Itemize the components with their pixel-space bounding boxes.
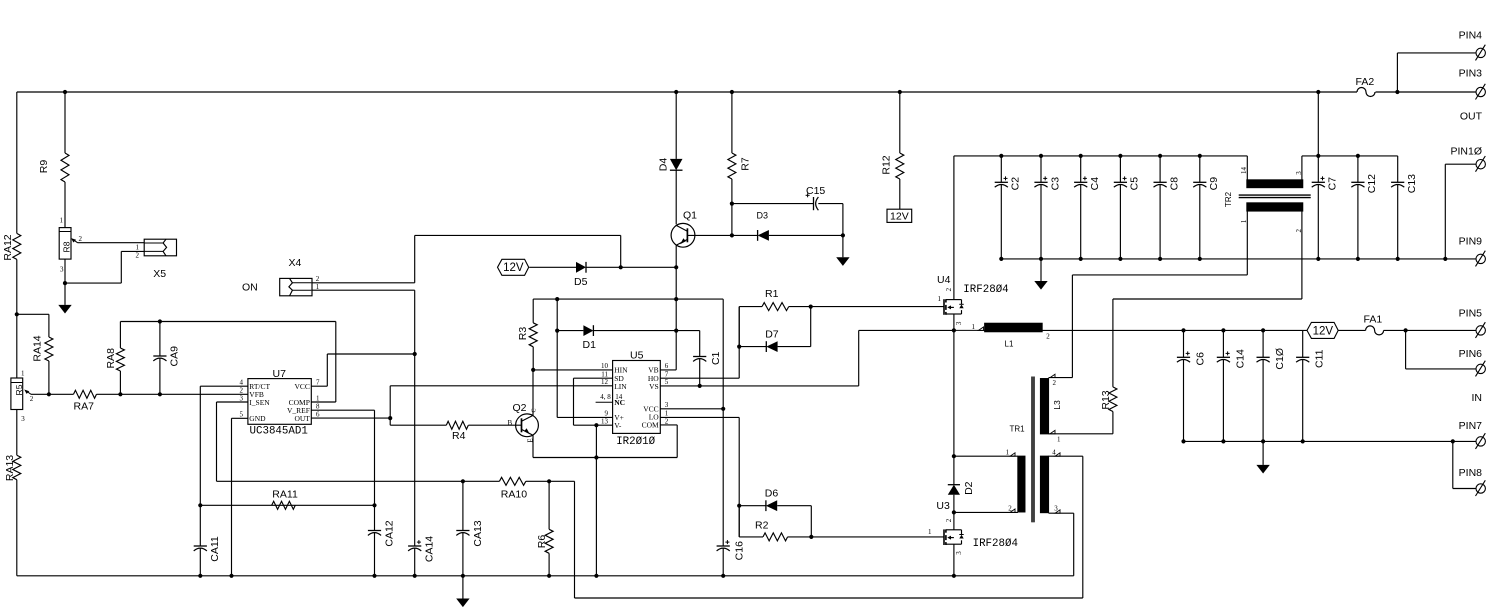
svg-text:PIN4: PIN4 [1459, 29, 1483, 41]
svg-text:14: 14 [1240, 167, 1248, 175]
svg-text:13: 13 [601, 417, 609, 425]
svg-text:U4: U4 [937, 274, 951, 286]
svg-text:C12: C12 [1366, 174, 1378, 193]
svg-text:2: 2 [1046, 333, 1050, 341]
svg-text:L1: L1 [1005, 340, 1014, 349]
svg-text:RA10: RA10 [501, 489, 527, 501]
svg-text:PIN3: PIN3 [1459, 68, 1483, 80]
svg-text:PIN1Ø: PIN1Ø [1450, 146, 1482, 158]
svg-text:C14: C14 [1234, 349, 1246, 368]
svg-text:R1: R1 [765, 288, 779, 300]
svg-text:1: 1 [21, 370, 25, 378]
svg-text:3: 3 [60, 266, 64, 274]
svg-text:FA2: FA2 [1356, 76, 1375, 88]
svg-text:1: 1 [136, 243, 140, 251]
svg-text:3: 3 [1054, 504, 1058, 512]
svg-text:RA12: RA12 [2, 234, 14, 260]
svg-text:C8: C8 [1168, 177, 1180, 191]
svg-text:C5: C5 [1129, 177, 1141, 191]
svg-text:R9: R9 [38, 160, 50, 174]
svg-text:6: 6 [665, 362, 669, 370]
svg-text:L3: L3 [1052, 400, 1062, 410]
svg-text:C4: C4 [1089, 177, 1101, 191]
svg-text:ON: ON [242, 282, 258, 294]
svg-text:4, 8: 4, 8 [600, 393, 611, 401]
svg-text:RA7: RA7 [74, 401, 95, 413]
svg-text:CA11: CA11 [209, 536, 221, 562]
svg-text:C15: C15 [806, 185, 825, 197]
svg-text:X4: X4 [289, 257, 302, 269]
svg-text:R5: R5 [14, 384, 24, 395]
svg-text:X5: X5 [153, 268, 166, 280]
svg-text:10: 10 [601, 362, 609, 370]
svg-text:IRF28Ø4: IRF28Ø4 [973, 538, 1018, 550]
svg-text:2: 2 [945, 518, 953, 522]
svg-text:1: 1 [665, 410, 669, 418]
svg-text:2: 2 [79, 235, 83, 243]
svg-text:D2: D2 [963, 481, 975, 495]
svg-text:CA9: CA9 [169, 346, 181, 367]
svg-text:2: 2 [240, 386, 244, 394]
svg-text:R8: R8 [62, 241, 72, 252]
svg-text:1: 1 [1006, 449, 1010, 457]
svg-text:TR2: TR2 [1224, 191, 1233, 207]
svg-text:D6: D6 [765, 488, 779, 500]
svg-text:RA11: RA11 [272, 489, 298, 501]
svg-text:OUT: OUT [294, 414, 310, 423]
svg-text:V-: V- [614, 421, 622, 430]
svg-text:C7: C7 [1327, 177, 1339, 191]
svg-text:RA13: RA13 [4, 455, 16, 481]
svg-text:1: 1 [1240, 219, 1248, 223]
svg-text:2: 2 [1295, 229, 1303, 233]
svg-text:PIN7: PIN7 [1459, 420, 1483, 432]
svg-text:12V: 12V [890, 211, 909, 223]
svg-text:R4: R4 [452, 430, 466, 442]
svg-text:R13: R13 [1100, 390, 1112, 409]
svg-text:C16: C16 [733, 541, 745, 560]
svg-text:Q2: Q2 [513, 402, 527, 414]
svg-text:VCC: VCC [294, 382, 309, 391]
svg-text:R6: R6 [536, 535, 548, 549]
svg-text:6: 6 [316, 411, 320, 419]
svg-text:8: 8 [316, 402, 320, 410]
svg-text:3: 3 [955, 551, 963, 555]
svg-text:U5: U5 [630, 349, 644, 361]
svg-text:1: 1 [316, 394, 320, 402]
svg-text:C9: C9 [1208, 177, 1220, 191]
svg-text:12V: 12V [1313, 325, 1334, 337]
svg-text:RA8: RA8 [105, 348, 117, 369]
svg-text:TR1: TR1 [1010, 425, 1026, 434]
svg-text:C3: C3 [1049, 177, 1061, 191]
svg-text:3: 3 [21, 415, 25, 423]
svg-text:VS: VS [649, 382, 659, 391]
svg-text:IN: IN [1472, 392, 1483, 404]
svg-text:3: 3 [955, 321, 963, 325]
svg-text:I_SEN: I_SEN [249, 398, 270, 407]
svg-text:E: E [527, 438, 535, 442]
svg-text:FA1: FA1 [1364, 314, 1383, 326]
svg-text:2: 2 [1053, 379, 1057, 387]
svg-text:5: 5 [665, 378, 669, 386]
svg-text:C6: C6 [1195, 352, 1207, 366]
svg-text:CA14: CA14 [424, 536, 436, 562]
svg-text:UC3845AD1: UC3845AD1 [250, 425, 308, 437]
svg-text:3: 3 [665, 401, 669, 409]
svg-text:IRF28Ø4: IRF28Ø4 [963, 284, 1008, 296]
svg-text:2: 2 [665, 417, 669, 425]
svg-text:R12: R12 [881, 155, 893, 174]
svg-text:3: 3 [1295, 171, 1303, 175]
svg-text:C: C [532, 408, 538, 412]
svg-text:C2: C2 [1010, 177, 1022, 191]
svg-text:U3: U3 [936, 500, 950, 512]
svg-text:2: 2 [30, 395, 34, 403]
svg-text:CA13: CA13 [472, 520, 484, 546]
svg-text:Q1: Q1 [683, 209, 697, 221]
svg-text:R2: R2 [755, 520, 769, 532]
svg-text:C1Ø: C1Ø [1274, 348, 1286, 370]
svg-text:COM: COM [642, 421, 659, 430]
svg-text:B: B [508, 419, 513, 427]
svg-text:R3: R3 [517, 327, 529, 341]
svg-text:D4: D4 [657, 158, 669, 172]
svg-text:1: 1 [1057, 436, 1061, 444]
svg-text:1: 1 [972, 323, 976, 331]
svg-text:RA14: RA14 [32, 335, 44, 361]
svg-text:PIN8: PIN8 [1459, 467, 1483, 479]
svg-text:OUT: OUT [1460, 111, 1483, 123]
svg-text:2: 2 [1008, 504, 1012, 512]
svg-text:D5: D5 [574, 276, 588, 288]
svg-text:PIN5: PIN5 [1459, 307, 1483, 319]
svg-text:14: 14 [615, 393, 623, 401]
svg-text:CA12: CA12 [384, 520, 396, 546]
svg-text:2: 2 [945, 287, 953, 291]
svg-text:3: 3 [240, 394, 244, 402]
svg-text:5: 5 [240, 411, 244, 419]
svg-text:D1: D1 [583, 339, 597, 351]
svg-text:GND: GND [249, 414, 266, 423]
svg-text:4: 4 [240, 378, 244, 386]
svg-text:PIN9: PIN9 [1459, 236, 1483, 248]
svg-text:C1: C1 [710, 351, 722, 365]
svg-text:D7: D7 [765, 329, 779, 341]
svg-text:C13: C13 [1406, 174, 1418, 193]
svg-text:PIN6: PIN6 [1459, 348, 1483, 360]
svg-text:2: 2 [136, 251, 140, 259]
svg-text:IR2Ø1Ø: IR2Ø1Ø [616, 436, 655, 448]
svg-text:7: 7 [316, 378, 320, 386]
svg-text:U7: U7 [273, 368, 287, 380]
svg-text:D3: D3 [757, 211, 769, 221]
svg-text:9: 9 [605, 410, 609, 418]
svg-text:12: 12 [601, 378, 609, 386]
svg-text:1: 1 [316, 283, 320, 291]
svg-text:7: 7 [665, 370, 669, 378]
svg-text:4: 4 [1052, 449, 1056, 457]
svg-text:R7: R7 [739, 157, 751, 171]
svg-text:LIN: LIN [614, 382, 627, 391]
svg-text:1: 1 [60, 217, 64, 225]
svg-text:1: 1 [938, 295, 942, 303]
svg-text:12V: 12V [503, 262, 524, 274]
svg-text:11: 11 [601, 370, 608, 378]
svg-text:1: 1 [928, 528, 932, 536]
svg-text:C11: C11 [1314, 349, 1326, 368]
